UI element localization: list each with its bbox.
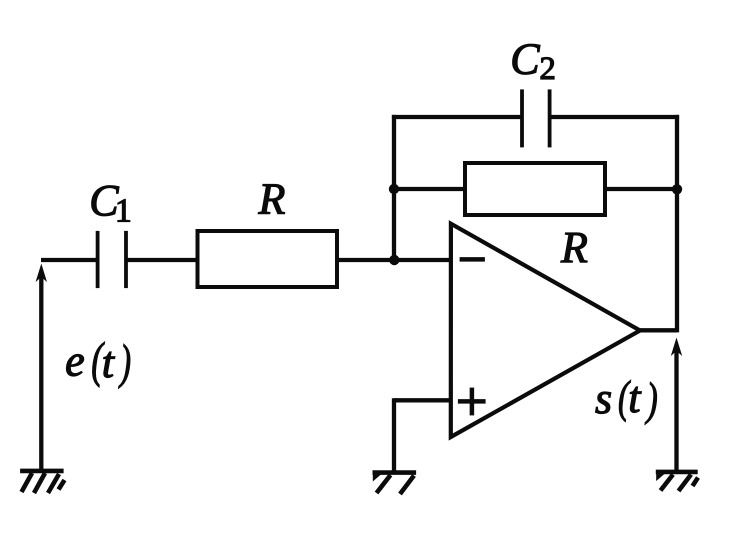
svg-text:R: R (258, 175, 286, 224)
svg-text:C: C (510, 34, 540, 83)
svg-text:t: t (628, 373, 642, 422)
svg-text:t: t (102, 338, 116, 387)
svg-text:): ) (118, 336, 131, 390)
svg-text:s: s (595, 374, 612, 423)
svg-text:2: 2 (539, 51, 556, 87)
svg-text:e: e (65, 336, 85, 385)
svg-text:): ) (645, 373, 658, 425)
svg-text:1: 1 (115, 192, 132, 229)
svg-text:R: R (560, 223, 588, 272)
